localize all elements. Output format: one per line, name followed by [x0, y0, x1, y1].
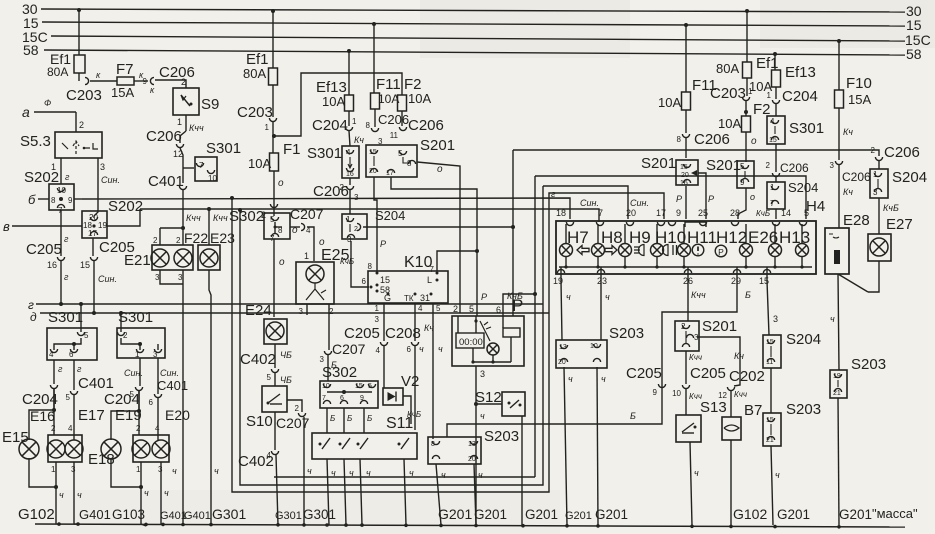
svg-text:17: 17: [656, 208, 666, 218]
node 15 label left: [23, 15, 39, 31]
fuse F2 10A (mid): [272, 73, 431, 138]
svg-text:г: г: [551, 189, 556, 199]
svg-text:Б: Б: [367, 414, 372, 423]
fuse Ef1 80A (right): [716, 11, 779, 78]
svg-text:2: 2: [176, 236, 181, 245]
wire C204-S301: [349, 131, 364, 146]
node 15C label left: [22, 29, 48, 45]
svg-text:21: 21: [766, 437, 774, 444]
node 30 label right: [906, 3, 922, 19]
svg-text:F10: F10: [846, 75, 872, 92]
svg-text:Ef13: Ef13: [785, 64, 816, 81]
svg-text:C402: C402: [238, 453, 274, 470]
svg-text:2: 2: [51, 424, 56, 433]
svg-text:3: 3: [773, 314, 778, 324]
svg-text:P: P: [380, 239, 386, 249]
wire S13 ground: [690, 442, 699, 525]
svg-text:Кчч: Кчч: [186, 213, 201, 223]
svg-text:15A: 15A: [111, 85, 134, 100]
svg-text:15: 15: [380, 275, 390, 285]
wire E25 pin3 down: [306, 304, 308, 315]
wire line d: [30, 310, 549, 324]
cluster pin 19: [553, 267, 565, 286]
svg-text:E20: E20: [165, 407, 190, 423]
wire nested top y150: [513, 149, 875, 151]
wire pin19-S203: [561, 281, 571, 340]
svg-text:ч: ч: [438, 344, 443, 354]
svg-text:Б: Б: [630, 411, 636, 421]
lamp E26: [748, 224, 782, 267]
connector C204 (E16): [22, 385, 58, 408]
svg-text:H9: H9: [629, 228, 651, 247]
connector C401 (E17): [66, 375, 114, 402]
cluster pin 9: [668, 208, 681, 226]
relay S301 (right): [767, 116, 824, 144]
wire pin26-S201: [688, 281, 706, 321]
svg-text:80A: 80A: [243, 66, 266, 81]
svg-text:S204: S204: [892, 169, 927, 186]
svg-text:G301: G301: [303, 507, 336, 522]
switch S13: [676, 399, 727, 442]
svg-text:C204: C204: [104, 391, 140, 408]
wire wrap B: [238, 208, 543, 485]
svg-text:2: 2: [261, 210, 266, 220]
svg-text:5: 5: [267, 373, 272, 382]
wire K10 31 down: [433, 303, 443, 439]
svg-text:80A: 80A: [47, 65, 68, 79]
svg-text:58: 58: [906, 46, 922, 62]
svg-text:ч: ч: [601, 374, 606, 384]
connector S202 (upper): [24, 169, 82, 215]
svg-text:C206: C206: [408, 117, 444, 134]
cluster pin 18: [556, 208, 574, 226]
wire S201 pin8 to P: [417, 162, 460, 313]
wire K10 pin7 up to P: [437, 249, 479, 271]
wire nested to C206 2: [875, 150, 879, 156]
svg-text:C204: C204: [782, 88, 818, 105]
svg-text:1: 1: [177, 117, 182, 127]
svg-text:9: 9: [740, 178, 745, 187]
svg-text:2: 2: [295, 404, 300, 413]
connector C206 (12): [146, 128, 184, 159]
fuse Ef13 10A (right): [749, 54, 816, 94]
svg-text:2: 2: [453, 304, 458, 314]
node 15C label right: [905, 32, 931, 48]
cluster pin 14 label КчБ: [756, 208, 791, 226]
svg-text:2: 2: [79, 120, 84, 130]
svg-text:ЧБ: ЧБ: [280, 375, 292, 385]
svg-text:9: 9: [143, 77, 148, 86]
svg-text:2: 2: [871, 146, 876, 155]
svg-text:3: 3: [320, 355, 325, 364]
connector S204 (mid): [342, 208, 405, 244]
svg-text:S9: S9: [201, 96, 219, 113]
wire C202-B7: [730, 391, 732, 417]
svg-text:ч: ч: [349, 468, 354, 478]
relay S301 (upper): [183, 140, 241, 183]
cluster pin 20: [626, 208, 636, 226]
lamp block E19 E20: [115, 398, 190, 474]
svg-text:5: 5: [804, 208, 809, 218]
svg-text:6: 6: [496, 305, 501, 315]
svg-text:20: 20: [626, 208, 636, 218]
svg-text:G102: G102: [18, 506, 55, 523]
svg-text:C402: C402: [240, 351, 276, 368]
fuse F1 10A: [248, 141, 301, 171]
svg-text:ч: ч: [164, 488, 169, 498]
ground G201 at x=438: [438, 506, 472, 522]
svg-text:G201: G201: [595, 507, 628, 522]
svg-text:F22: F22: [184, 230, 208, 246]
wire E15 bottom join: [29, 458, 58, 489]
wire Ef1-C203: [272, 85, 274, 117]
wire C206-S204: [350, 190, 359, 214]
svg-text:ч: ч: [775, 470, 780, 480]
svg-text:S12: S12: [475, 389, 502, 406]
wire line g: [28, 298, 543, 312]
svg-text:E17: E17: [78, 407, 105, 424]
svg-text:5: 5: [436, 304, 441, 313]
svg-text:1: 1: [51, 465, 56, 474]
ground label масса: [872, 506, 918, 521]
svg-text:G102: G102: [733, 506, 767, 522]
svg-text:о: о: [279, 257, 285, 268]
svg-text:S201: S201: [641, 155, 676, 172]
wire E23 to ground G301: [209, 270, 219, 524]
svg-text:F11: F11: [376, 76, 401, 93]
lamp H7: [560, 224, 590, 267]
svg-text:о: о: [751, 136, 757, 147]
wire E24-C402: [275, 344, 292, 368]
connector C203 (left): [66, 70, 102, 104]
svg-text:ч: ч: [331, 468, 336, 478]
svg-text:10A: 10A: [322, 94, 345, 109]
svg-text:ч: ч: [830, 314, 835, 324]
wire S10-C207 2: [287, 400, 302, 413]
wire S301m pin1 down: [124, 358, 143, 386]
connector C203 (right): [710, 85, 753, 102]
wire S202 pin7 down: [61, 210, 69, 256]
wire S12 ground: [521, 416, 523, 525]
svg-text:C205: C205: [26, 241, 62, 258]
connector S204 (far right): [870, 169, 927, 198]
svg-text:9: 9: [676, 208, 681, 218]
svg-text:S11: S11: [386, 415, 413, 432]
svg-text:г: г: [58, 364, 63, 374]
wire C207-E25 pin1: [292, 225, 325, 261]
wire C207-G301: [304, 417, 312, 525]
svg-text:д: д: [30, 310, 37, 324]
wire C206-S9: [155, 77, 186, 88]
relay S201 (right upper): [641, 155, 698, 187]
svg-text:E27: E27: [886, 216, 913, 233]
svg-text:2: 2: [766, 161, 771, 170]
wire Ef1-C203 r: [746, 78, 748, 96]
node v: [3, 219, 82, 234]
svg-text:E19: E19: [115, 407, 142, 424]
svg-text:C204: C204: [312, 117, 348, 134]
svg-text:8: 8: [51, 196, 56, 205]
wire bus-b: [37, 198, 39, 200]
wire V2 right: [403, 396, 421, 424]
svg-text:S203: S203: [786, 401, 821, 418]
svg-text:8: 8: [368, 262, 373, 271]
wire bus 30: [41, 8, 905, 13]
svg-text:6: 6: [407, 345, 412, 354]
svg-text:C207: C207: [332, 341, 366, 357]
svg-text:Син.: Син.: [580, 198, 599, 208]
svg-text:ч: ч: [478, 470, 483, 480]
ground G201 at x=595: [595, 507, 628, 522]
wire S301 pin6 down: [74, 360, 82, 390]
svg-text:9: 9: [360, 395, 364, 402]
svg-text:S203: S203: [851, 356, 886, 373]
svg-text:ч: ч: [366, 468, 371, 478]
svg-text:ЧБ: ЧБ: [280, 350, 292, 360]
svg-text:ч: ч: [144, 488, 149, 498]
svg-text:C203: C203: [237, 104, 273, 121]
svg-text:1: 1: [873, 170, 878, 179]
wire S302 pins down: [327, 408, 372, 433]
wire S301m pin3 down: [158, 358, 179, 394]
wire C206-E28: [838, 165, 840, 228]
cluster pin 15: [759, 267, 771, 286]
svg-text:КчБ: КчБ: [883, 203, 899, 213]
connector S203 (far right): [830, 356, 886, 398]
svg-text:E24: E24: [245, 302, 272, 319]
svg-text:L: L: [427, 275, 432, 285]
connector S202 (lower): [82, 198, 143, 238]
svg-text:S301: S301: [118, 309, 153, 326]
relay S301 (lower mid): [117, 309, 165, 359]
svg-text:C203: C203: [710, 85, 746, 102]
wire E18 branch: [111, 391, 141, 440]
lamp H12: [715, 224, 752, 267]
svg-text:11: 11: [766, 359, 773, 366]
svg-text:1: 1: [136, 465, 141, 474]
wire F2-C206 11: [401, 111, 403, 126]
wire K10 pin6 left: [368, 286, 370, 288]
wire S203 grounds: [436, 464, 483, 525]
svg-text:5: 5: [130, 390, 135, 399]
svg-text:ч: ч: [59, 490, 64, 500]
wire C203-F1: [272, 122, 274, 153]
svg-text:Кчч: Кчч: [189, 123, 204, 133]
wire B7 ground: [730, 440, 732, 525]
svg-text:S13: S13: [700, 399, 727, 416]
svg-text:00:00: 00:00: [459, 337, 483, 348]
svg-text:E15: E15: [2, 429, 29, 446]
svg-text:2: 2: [153, 236, 158, 245]
svg-text:КчБ: КчБ: [507, 291, 523, 301]
svg-text:F7: F7: [116, 61, 134, 78]
svg-text:Син.: Син.: [630, 198, 649, 208]
wire S204 pin3 to K10 pin6: [340, 241, 369, 287]
svg-text:1: 1: [375, 304, 380, 313]
wire S202-2 pin17 down: [92, 238, 94, 256]
svg-text:20: 20: [468, 456, 476, 463]
svg-text:G201: G201: [525, 507, 558, 522]
svg-text:10A: 10A: [408, 91, 431, 106]
wire nested y186: [543, 186, 628, 304]
svg-text:G301: G301: [212, 506, 246, 522]
svg-text:S301: S301: [206, 140, 241, 157]
svg-text:C401: C401: [157, 378, 188, 393]
svg-text:S302: S302: [229, 208, 264, 225]
svg-text:6: 6: [362, 277, 367, 286]
svg-text:S203: S203: [609, 325, 644, 342]
svg-text:2: 2: [681, 322, 686, 331]
cigarette lighter E28: [825, 212, 870, 274]
svg-text:20: 20: [681, 172, 689, 179]
svg-text:12: 12: [718, 391, 727, 400]
svg-text:S201: S201: [706, 157, 741, 174]
wire C205-g line: [59, 261, 69, 306]
relay S201 (right mid): [706, 157, 754, 188]
svg-text:5: 5: [740, 162, 745, 171]
ground G401 at x=79: [79, 507, 111, 522]
svg-text:P: P: [676, 194, 682, 204]
svg-text:10A: 10A: [248, 156, 271, 171]
svg-text:Син.: Син.: [101, 175, 120, 185]
svg-text:10: 10: [208, 174, 217, 183]
connector S302 (upper): [229, 204, 300, 243]
ground G102 at x=18: [18, 506, 55, 523]
svg-text:ч: ч: [214, 466, 219, 476]
svg-text:7: 7: [598, 208, 603, 218]
svg-text:C204: C204: [22, 391, 58, 408]
node 15 label right: [906, 17, 922, 33]
wire E21 bottoms: [160, 270, 183, 290]
wire S201rm down: [738, 188, 755, 219]
connector C206 (8): [371, 112, 409, 146]
svg-text:ч: ч: [694, 468, 699, 478]
wire S201 pin17 to P pin5: [391, 177, 477, 316]
wire S204-E27: [879, 198, 899, 234]
wire pin23-S203: [601, 281, 610, 340]
svg-text:5: 5: [66, 393, 71, 402]
switch S10: [246, 386, 287, 430]
svg-text:C206: C206: [378, 112, 409, 127]
wire F2 down right: [746, 132, 757, 162]
wire P-S12: [474, 402, 502, 406]
wire S5.3 pin3: [94, 158, 120, 218]
svg-text:S5.3: S5.3: [20, 133, 51, 150]
svg-text:б: б: [28, 192, 36, 207]
wire C207-S302b: [327, 355, 329, 381]
horn B7: [722, 402, 762, 440]
label g (line): [551, 189, 556, 199]
svg-text:E21: E21: [124, 252, 151, 269]
connector S302 (lower): [320, 364, 378, 408]
wire E28 ground: [830, 274, 839, 370]
connector C206 (2): [313, 183, 354, 200]
svg-text:21: 21: [833, 390, 841, 397]
svg-text:G401: G401: [79, 507, 111, 522]
svg-text:Син.: Син.: [98, 274, 117, 284]
wire E17 to ground G401: [74, 462, 82, 524]
cluster pin 17: [656, 208, 666, 226]
fuse F11 10A (mid): [371, 24, 401, 109]
svg-text:18: 18: [556, 208, 566, 218]
wire a-S5.3: [76, 112, 84, 132]
svg-text:1: 1: [265, 123, 270, 132]
svg-text:H8: H8: [601, 228, 623, 247]
svg-text:Кчч: Кчч: [734, 390, 747, 399]
node 58 label right: [906, 46, 922, 62]
connector S203 (lower mid): [428, 428, 519, 464]
svg-text:15: 15: [906, 17, 922, 33]
svg-text:G301: G301: [275, 510, 302, 522]
svg-text:КчБ: КчБ: [340, 257, 354, 266]
svg-text:P: P: [718, 247, 724, 257]
svg-text:8: 8: [366, 121, 371, 130]
svg-text:о: о: [278, 178, 284, 189]
svg-text:C205: C205: [344, 325, 380, 342]
svg-text:C206: C206: [694, 131, 730, 148]
svg-text:C206: C206: [146, 128, 182, 145]
wire C203-F2 r: [744, 101, 748, 116]
cluster pin 23: [597, 267, 607, 286]
svg-text:C202: C202: [729, 368, 765, 385]
svg-text:S203: S203: [484, 428, 519, 445]
cluster common wire: [559, 265, 812, 268]
switch S11: [312, 415, 417, 459]
connector C202 (12): [718, 368, 765, 400]
svg-text:C401: C401: [78, 375, 114, 392]
ground G102 at x=733: [733, 506, 767, 522]
wire bus 15C: [51, 36, 905, 43]
wire C205-V2: [383, 346, 385, 388]
svg-text:C206: C206: [884, 144, 920, 161]
svg-text:17: 17: [88, 229, 97, 238]
svg-text:9: 9: [68, 196, 73, 205]
ground G401 at x=160: [160, 510, 187, 522]
wire S203 ground right: [771, 446, 780, 525]
cluster notch: [685, 222, 706, 227]
wire S5.3 pin1: [51, 158, 70, 184]
svg-text:2: 2: [354, 226, 358, 233]
connector C206 (8 right): [682, 131, 729, 148]
svg-text:ч: ч: [480, 411, 485, 421]
wire line b extension: [59, 197, 570, 219]
lamp E18: [88, 439, 121, 468]
svg-text:5: 5: [469, 304, 474, 314]
svg-text:16: 16: [346, 171, 354, 178]
relay P clock: [452, 296, 524, 366]
svg-text:ч: ч: [419, 344, 424, 354]
connector S203 (lower right): [763, 401, 821, 446]
svg-text:11: 11: [390, 131, 399, 140]
wire S204 pin2 right: [363, 225, 515, 229]
svg-text:о: о: [292, 225, 298, 236]
wire C203-F7: [90, 80, 117, 82]
svg-text:C206: C206: [780, 161, 809, 175]
svg-text:Б: Б: [745, 290, 751, 300]
svg-text:ч: ч: [409, 468, 414, 478]
connector C207 (2): [276, 413, 310, 431]
svg-text:4: 4: [68, 424, 73, 433]
lamp block E21: [124, 236, 193, 282]
lamp H9: [619, 224, 651, 267]
svg-text:E28: E28: [843, 212, 870, 229]
cluster pin 28: [730, 208, 740, 226]
wire P pin6 up: [503, 291, 535, 316]
svg-text:15A: 15A: [848, 92, 871, 107]
svg-text:S201: S201: [420, 137, 455, 154]
connector C204 (1): [312, 117, 357, 134]
wire E20 to ground G401: [161, 462, 169, 525]
